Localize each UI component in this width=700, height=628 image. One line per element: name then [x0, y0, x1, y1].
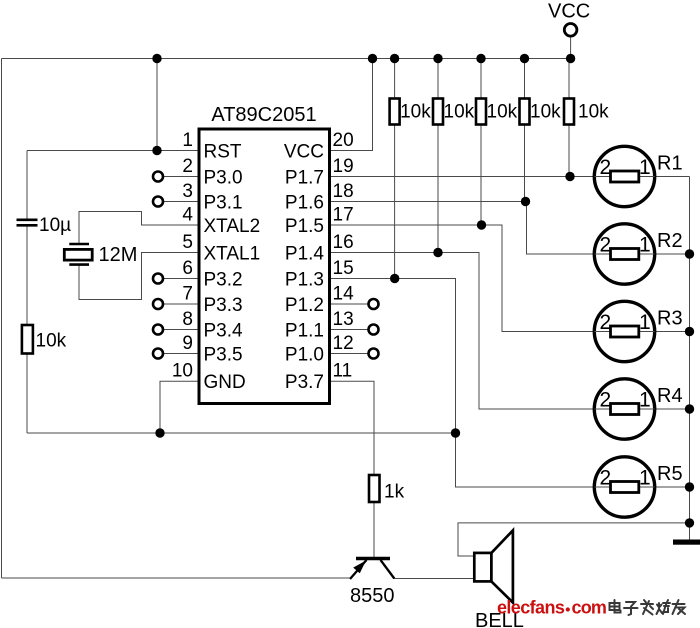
wire 10k bottom to ground rail [26, 354, 28, 434]
svg-text:RST: RST [204, 142, 242, 163]
svg-text:1: 1 [639, 467, 651, 490]
wire left border vertical (VCC to emitter) [1, 59, 3, 579]
svg-text:10µ: 10µ [39, 215, 71, 236]
junction on VCC bus 6 [520, 54, 529, 63]
wire VCC drop to RST line [156, 59, 158, 151]
pin 7 open terminal [153, 299, 163, 309]
resistor 10k pullup 2 body [433, 99, 443, 125]
svg-text:P1.6: P1.6 [285, 193, 324, 214]
wire 10k pullup 2 top lead [437, 59, 439, 99]
svg-text:4: 4 [182, 205, 193, 226]
wire bottom emitter feed [2, 577, 352, 579]
wire pin9 stub [163, 353, 199, 355]
junction ground rail / GND pin [155, 428, 164, 437]
junction P1.4/10k [433, 248, 442, 257]
svg-text:2: 2 [600, 234, 612, 257]
pin 12 open terminal [369, 349, 379, 359]
junction right rail R4 [685, 404, 694, 413]
svg-text:P1.4: P1.4 [285, 244, 325, 265]
wire pin8 stub [163, 329, 199, 331]
resistor 10k pullup 5 body [564, 99, 574, 125]
svg-text:3: 3 [182, 181, 193, 202]
junction on VCC bus 2 [368, 54, 377, 63]
transistor Q1 collector [381, 560, 395, 579]
svg-text:13: 13 [333, 309, 354, 330]
wire 10k pullup 5 top lead [568, 59, 570, 99]
svg-text:XTAL1: XTAL1 [204, 244, 261, 265]
svg-text:11: 11 [333, 361, 353, 382]
wire P1.3 to R5 [330, 279, 595, 488]
wire right ground rail [689, 177, 691, 541]
svg-text:1: 1 [639, 311, 651, 334]
wire VCC terminal lead [570, 36, 572, 58]
svg-text:P1.2: P1.2 [285, 295, 324, 316]
junction P1.5/10k [477, 220, 486, 229]
svg-text:10k: 10k [400, 102, 431, 123]
svg-text:10k: 10k [444, 102, 475, 123]
pin 8 open terminal [153, 325, 163, 335]
pin 3 open terminal [153, 197, 163, 207]
wire 10k pullup 3 top lead [480, 59, 482, 99]
svg-text:6: 6 [182, 258, 193, 279]
svg-text:5: 5 [182, 232, 193, 253]
svg-text:1: 1 [182, 130, 193, 151]
svg-text:2: 2 [182, 156, 193, 177]
svg-text:P3.7: P3.7 [285, 372, 324, 393]
sensor R1 circle with internal resistor [594, 146, 654, 206]
wire P1.5 to R3 [330, 225, 595, 332]
svg-text:10k: 10k [578, 102, 609, 123]
svg-text:P1.5: P1.5 [285, 216, 324, 237]
wire pin12 stub [330, 353, 369, 355]
svg-text:R2: R2 [657, 230, 683, 252]
svg-text:14: 14 [333, 284, 355, 305]
junction on VCC bus 1 [152, 54, 161, 63]
wire speaker top to rail [458, 523, 690, 556]
capacitor C1 10u plates [17, 219, 38, 222]
svg-text:18: 18 [333, 181, 354, 202]
svg-text:10k: 10k [487, 102, 518, 123]
svg-text:9: 9 [182, 333, 193, 354]
svg-text:P3.2: P3.2 [204, 270, 243, 291]
junction right rail speaker [685, 518, 694, 527]
wire cap bottom to 10k top [26, 226, 28, 325]
sensor R2 circle with internal resistor [594, 224, 654, 284]
junction ground rail / P1.3 drop [451, 428, 460, 437]
wire P1.7 to R1 [330, 176, 595, 178]
wire 10k pullup 3 bottom lead [480, 125, 482, 226]
pin 2 open terminal [153, 172, 163, 182]
svg-text:P1.3: P1.3 [285, 270, 324, 291]
svg-text:2: 2 [600, 156, 612, 179]
crystal Y1 12M [69, 243, 89, 246]
wire P3.7 pin11 to 1k [330, 381, 375, 475]
wire GND pin10 stub [160, 381, 199, 433]
pin 13 open terminal [369, 325, 379, 335]
svg-text:17: 17 [333, 205, 354, 226]
svg-text:P3.5: P3.5 [204, 345, 243, 366]
pin 9 open terminal [153, 349, 163, 359]
junction on VCC bus 3 [390, 54, 399, 63]
resistor R7 1k body [369, 475, 380, 502]
resistor 10k pullup 3 body [476, 99, 486, 125]
wire 10k pullup 5 bottom lead [568, 125, 570, 177]
wire pin6 stub [163, 278, 199, 280]
svg-text:19: 19 [333, 156, 354, 177]
sensor R5 circle with internal resistor [594, 457, 654, 517]
junction P1.6/10k [521, 197, 530, 206]
wire R4 right lead [655, 408, 690, 410]
pin 6 open terminal [153, 274, 163, 284]
svg-text:com: com [572, 598, 607, 618]
svg-text:7: 7 [182, 284, 193, 305]
svg-text:10k: 10k [530, 102, 561, 123]
junction right rail R5 [685, 482, 694, 491]
svg-text:P1.7: P1.7 [285, 168, 324, 189]
transistor Q1 base bar [356, 557, 390, 560]
wire R5 right lead [655, 486, 690, 488]
wire pin20 VCC connection [330, 59, 373, 151]
wire 1k bottom to transistor base [373, 502, 375, 557]
resistor 10k pullup 1 body [390, 99, 400, 125]
svg-text:GND: GND [204, 372, 246, 393]
wire collector to speaker [394, 578, 474, 580]
junction P1.3/10k [390, 274, 399, 283]
svg-text:2: 2 [600, 311, 612, 334]
wire P1.4 to R4 [330, 253, 595, 410]
wire R3 right lead [655, 331, 690, 333]
svg-text:P3.1: P3.1 [204, 193, 243, 214]
speaker BELL body [474, 553, 491, 582]
svg-text:R5: R5 [657, 463, 683, 485]
svg-text:P1.0: P1.0 [285, 345, 324, 366]
transistor Q1 emitter with arrow [350, 560, 367, 579]
svg-text:R1: R1 [657, 153, 683, 175]
svg-text:1k: 1k [384, 482, 405, 503]
watermark CJK text [610, 600, 686, 615]
sensor R3 circle with internal resistor [594, 301, 654, 361]
resistor R6 10k (reset) [22, 325, 33, 354]
svg-text:R4: R4 [657, 385, 683, 407]
wire 10k pullup 1 bottom lead [394, 125, 396, 279]
junction on VCC bus 4 [433, 54, 442, 63]
wire 10k pullup 2 bottom lead [437, 125, 439, 253]
svg-text:VCC: VCC [284, 142, 324, 163]
sensor R4 circle with internal resistor [594, 379, 654, 439]
pin 14 open terminal [369, 299, 379, 309]
svg-text:2: 2 [600, 467, 612, 490]
svg-text:elecfans: elecfans [497, 598, 565, 618]
svg-text:P3.4: P3.4 [204, 321, 244, 342]
svg-text:2: 2 [600, 389, 612, 412]
junction on VCC bus 7 [566, 54, 575, 63]
svg-text:XTAL2: XTAL2 [204, 216, 261, 237]
svg-text:20: 20 [333, 130, 354, 151]
wire XTAL1 pin5 path [79, 253, 199, 300]
wire ground rail horizontal [27, 432, 456, 434]
junction on VCC bus 5 [476, 54, 485, 63]
ground symbol [673, 540, 700, 545]
svg-text:15: 15 [333, 258, 354, 279]
svg-text:P3.3: P3.3 [204, 295, 243, 316]
svg-text:10: 10 [172, 361, 193, 382]
wire R2 right lead [655, 253, 690, 255]
svg-text:1: 1 [639, 156, 651, 179]
svg-text:8550: 8550 [350, 585, 395, 607]
wire pin3 stub [163, 201, 199, 203]
junction right rail R3 [685, 327, 694, 336]
svg-text:VCC: VCC [548, 1, 590, 23]
wire 10k pullup 4 bottom lead [524, 125, 526, 202]
wire pin2 stub [163, 176, 199, 178]
svg-text:R3: R3 [657, 308, 683, 330]
wire VCC bus (top horizontal rail) [2, 58, 571, 60]
svg-text:P3.0: P3.0 [204, 168, 243, 189]
resistor 10k pullup 4 body [520, 99, 530, 125]
VCC terminal circle [564, 24, 577, 37]
wire pin13 stub [330, 329, 369, 331]
wire 10k pullup 1 top lead [394, 59, 396, 99]
IC U1 AT89C2051 body [199, 129, 330, 404]
wire XTAL2 pin4 path [79, 212, 199, 245]
wire pin7 stub [163, 303, 199, 305]
junction P1.7/10k [565, 172, 574, 181]
wire pin14 stub [330, 303, 369, 305]
svg-text:P1.1: P1.1 [285, 321, 324, 342]
svg-text:8: 8 [182, 309, 193, 330]
svg-text:AT89C2051: AT89C2051 [211, 104, 316, 126]
svg-text:10k: 10k [36, 331, 67, 352]
svg-text:1: 1 [639, 389, 651, 412]
wire P1.6 to R2 [330, 202, 595, 255]
svg-text:16: 16 [333, 232, 354, 253]
wire R1 right lead [655, 176, 690, 178]
junction RST node [152, 146, 161, 155]
wire 10k pullup 4 top lead [524, 59, 526, 99]
svg-text:12: 12 [333, 333, 354, 354]
svg-text:12M: 12M [99, 244, 138, 266]
wire RST horizontal (pin1) [27, 150, 199, 152]
svg-text:1: 1 [639, 234, 651, 257]
wire RST to cap top [26, 151, 28, 220]
junction right rail R2 [685, 249, 694, 258]
